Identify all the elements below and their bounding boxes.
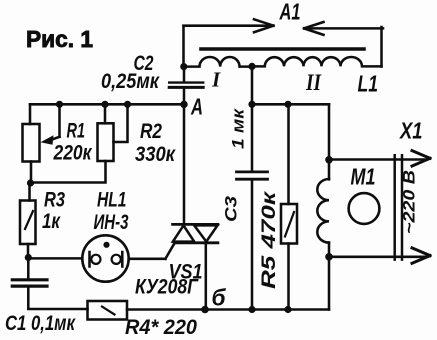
svg-text:R3: R3: [44, 189, 65, 212]
svg-text:II: II: [305, 70, 322, 95]
node: R3-C1-HL1 junction: [25, 254, 32, 261]
motor M1: [349, 193, 380, 224]
svg-text:~220 В: ~220 В: [401, 170, 419, 234]
node: C3 top tee: [248, 101, 255, 108]
svg-text:С1 0,1мк: С1 0,1мк: [5, 312, 76, 335]
wire: mains top lead with arrow: [329, 151, 430, 166]
svg-text:КУ208Г: КУ208Г: [135, 276, 199, 299]
resistor R1 potentiometer: [23, 104, 60, 183]
svg-text:I: I: [211, 68, 221, 92]
svg-text:220к: 220к: [53, 142, 93, 165]
winding II: [252, 57, 382, 66]
node: motor top junction: [325, 156, 333, 164]
wire: top bus: [30, 103, 184, 106]
junction: R2 tap to bus: [124, 101, 131, 108]
capacitor C3: [237, 66, 268, 309]
wire: bottom bus: [127, 308, 329, 311]
svg-text:б: б: [212, 285, 227, 311]
wire: loop left vertical: [182, 26, 185, 66]
svg-text:R2: R2: [140, 120, 162, 143]
svg-text:А: А: [190, 94, 203, 120]
svg-text:HL1: HL1: [97, 189, 127, 212]
capacitor C2: [169, 67, 203, 105]
svg-text:Рис. 1: Рис. 1: [26, 26, 93, 52]
node: coil tap junction: [248, 63, 255, 70]
resistor R3: [20, 183, 36, 258]
node: R5 bottom: [284, 306, 291, 313]
svg-text:X1: X1: [398, 118, 422, 144]
connector X1: [395, 155, 402, 259]
node A: [180, 94, 203, 120]
svg-text:1к: 1к: [42, 210, 61, 233]
antenna A1 right arrow: [304, 22, 383, 35]
wire: motor column vertical: [328, 104, 331, 309]
inductor L1 core: [201, 47, 364, 51]
wire: to neon lamp: [28, 257, 82, 260]
resistor R5: [281, 104, 297, 309]
svg-text:R4* 220: R4* 220: [125, 316, 197, 339]
svg-text:330к: 330к: [135, 143, 176, 166]
neon lamp HL1: [82, 235, 128, 281]
svg-text:0,25мк: 0,25мк: [101, 70, 160, 93]
svg-text:С3: С3: [223, 196, 241, 222]
junction: R1 wiper to bus: [56, 101, 63, 108]
wire: loop right vertical: [380, 27, 383, 67]
node: R1-R2-R3 junction: [27, 179, 34, 186]
winding I: [184, 57, 252, 67]
node: coil left junction: [180, 63, 187, 70]
node Б: [201, 285, 226, 314]
capacitor C1: [12, 258, 87, 310]
resistor R2: [30, 104, 128, 182]
triac VS1: [165, 104, 218, 309]
svg-text:1 мк: 1 мк: [230, 107, 248, 149]
wire: branch bus to motor: [252, 103, 329, 106]
svg-text:М1: М1: [351, 164, 376, 190]
wire: mains bottom lead with arrow: [329, 248, 430, 263]
node: motor bottom junction: [325, 253, 333, 261]
node: R5 top: [284, 101, 291, 108]
wire: lamp to triac gate: [129, 258, 166, 261]
svg-text:R1: R1: [67, 120, 86, 143]
svg-text:L1: L1: [358, 71, 379, 97]
svg-text:А1: А1: [279, 0, 301, 25]
junction: R2 top to bus: [101, 101, 108, 108]
antenna A1 left arrow: [184, 19, 274, 32]
svg-text:ИН-3: ИН-3: [94, 211, 129, 234]
node: C3 bottom: [248, 306, 255, 313]
resistor R4: [88, 301, 128, 320]
svg-text:R5 470к: R5 470к: [259, 190, 280, 289]
inductor: motor winding: [317, 179, 329, 243]
